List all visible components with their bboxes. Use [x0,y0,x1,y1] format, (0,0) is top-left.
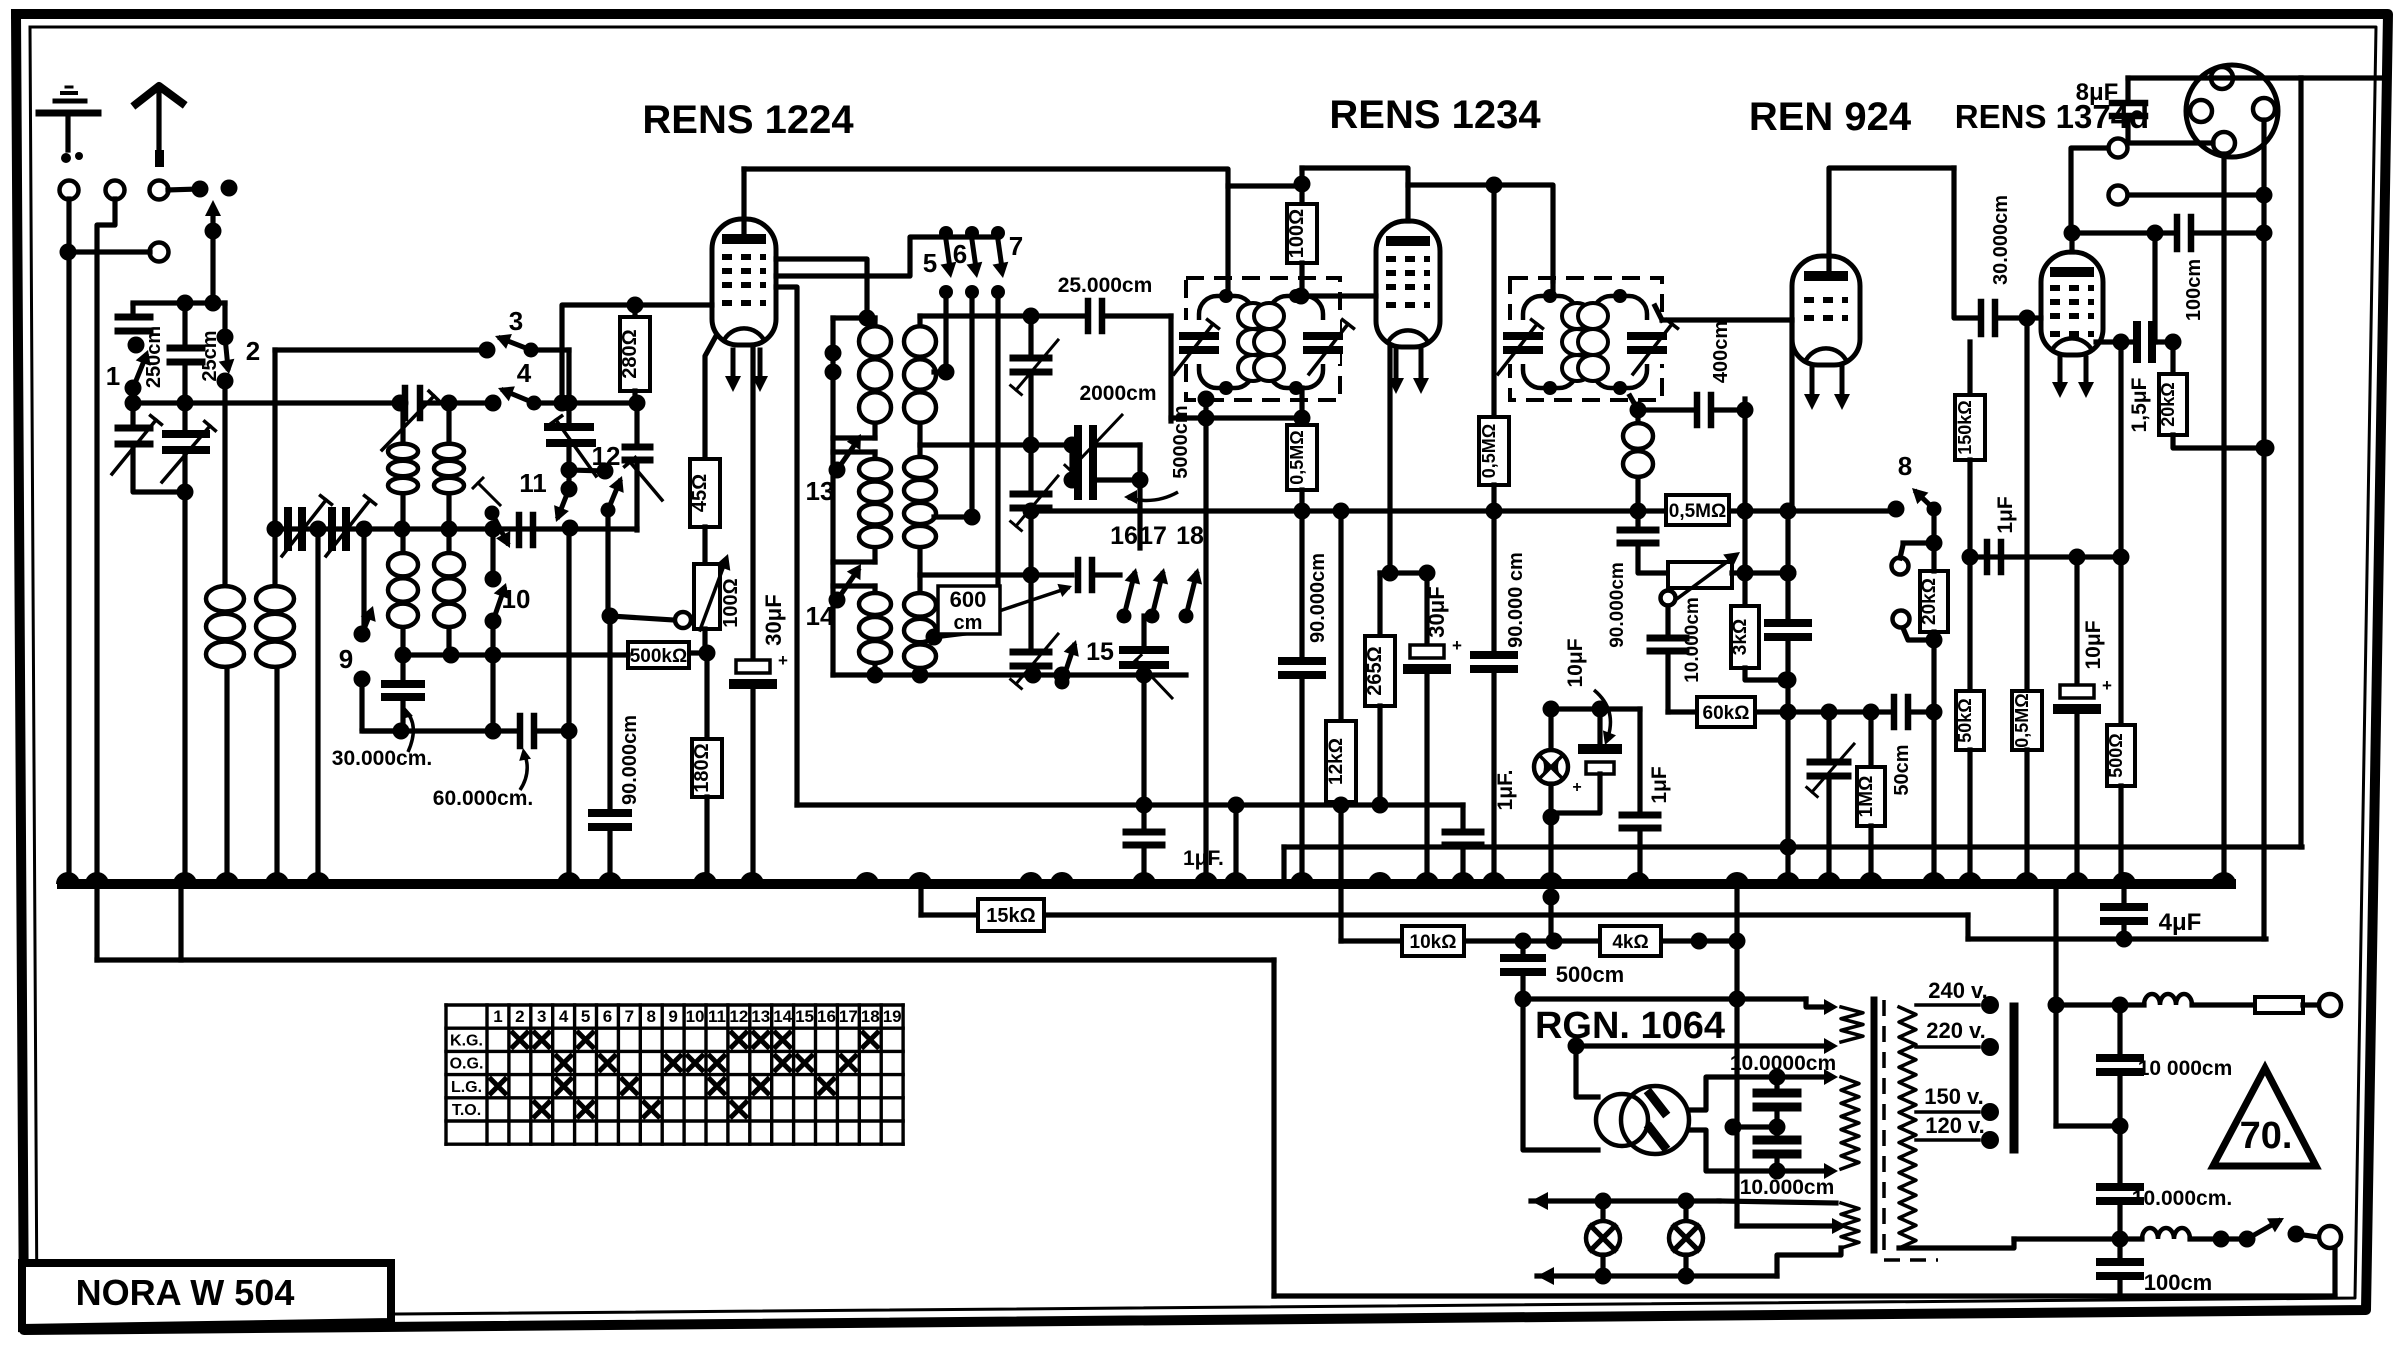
coil A1 [833,318,891,438]
trimmer cap var2 [162,403,215,884]
fuse [2255,997,2318,1013]
resistor 60k [1697,697,1755,727]
speaker plug [2186,65,2278,157]
wire x2264 [2256,120,2273,939]
capacitor 5000cm b [1064,445,1149,496]
label 8uF [2076,79,2119,106]
capacitor 250cm [118,305,165,388]
svg-text:K.G.: K.G. [450,1032,483,1049]
pilot lamp b [1669,1201,1703,1276]
svg-text:100Ω: 100Ω [1286,209,1308,258]
switch 17 [1139,522,1168,624]
resistor 150k [1955,342,1985,557]
svg-text:1μF: 1μF [1648,766,1671,804]
mains select bar [2010,1007,2019,1149]
svg-text:14: 14 [806,601,835,631]
wire cathode bias [705,336,716,459]
svg-text:0,5MΩ: 0,5MΩ [1287,430,1307,484]
switch 2 [217,303,261,390]
svg-text:4μF: 4μF [2159,909,2202,936]
wire y805 [1236,802,1463,807]
wire tube4 top [2064,225,2081,253]
wire tube1 top lead [741,169,746,240]
speaker coil b [2142,1228,2247,1248]
capacitor 10uF a [1551,709,1617,813]
osc coil U1b [434,403,464,529]
osc coil U2a [388,529,418,655]
svg-text:10.000cm: 10.000cm [1740,1176,1835,1199]
resistor 4k [1600,926,1661,956]
svg-text:7: 7 [1009,231,1023,261]
wire y557 row [1962,549,2130,566]
svg-text:1μF.: 1μF. [1494,770,1517,811]
trimmer T3 [1011,575,1058,689]
svg-text:8: 8 [647,1007,656,1026]
wire speaker fb [2118,342,2123,557]
capacitor 100cm [2177,217,2273,321]
resistor 50k [1955,557,1984,884]
jack circle 2 [1893,611,1935,641]
capacitor 10000cm d [2100,1126,2232,1239]
wire y960 [97,884,1274,960]
switch 11 [473,468,547,548]
rectifier RGN1064 V5 [1596,1086,1689,1154]
trimmer cap 12a [548,350,596,479]
resistor 0.5M b [1479,417,1509,520]
trimmer var5 [326,496,376,556]
triangle 70 [2213,1068,2316,1166]
antenna symbol [136,86,182,167]
svg-text:180Ω: 180Ω [691,743,713,792]
varcap 15 [1123,616,1172,698]
svg-text:30μF: 30μF [1424,586,1449,637]
svg-text:2000cm: 2000cm [1079,382,1156,405]
capacitor 10000cm a [1730,1052,1836,1136]
wire 15k riser [918,884,923,915]
wire y350 sw3 [275,347,487,352]
svg-text:12: 12 [592,441,621,471]
wire cap mid [1725,1119,1778,1136]
svg-text:240 v.: 240 v. [1928,978,1988,1003]
wire x1737 [1729,884,1746,1226]
wire tube2 top [1302,168,1408,221]
svg-text:RGN. 1064: RGN. 1064 [1535,1005,1725,1047]
svg-text:6: 6 [953,239,967,269]
coil A left side [825,318,842,675]
wire pot right [1732,565,1797,582]
transformer primary winding a [1841,1007,1863,1042]
capacitor 500cm b [1504,941,1624,1008]
wire top y305 [133,295,225,312]
svg-text:T.O.: T.O. [452,1102,481,1119]
svg-text:+: + [1452,636,1462,655]
switch 5 [923,226,957,299]
pilot lamp a [1586,1201,1620,1276]
svg-text:500kΩ: 500kΩ [630,646,688,667]
wire top bus y177 [744,169,1228,296]
wire pot to 180 [699,629,716,662]
wire sw3-sw4 link [531,347,569,352]
svg-text:20kΩ: 20kΩ [1919,578,1940,625]
wire y316 [920,308,1171,325]
label 10uF [1564,638,1616,745]
wire cath 1234 [1382,348,1399,582]
wire tube3 top [1829,168,1954,276]
coil A2 [833,452,891,562]
svg-text:+: + [778,651,788,670]
terminal out1 [2319,994,2341,1016]
svg-text:60kΩ: 60kΩ [1703,703,1750,724]
trimmer var4 [282,496,332,556]
wire tube2 anode y185 [1408,185,1553,281]
svg-text:16: 16 [1110,522,1138,550]
capacitor 1.5uF [2128,325,2182,432]
heater row 2 [1537,1248,1841,1285]
IF2 dashed box [1510,278,1662,400]
capacitor 1uF a [1126,675,1224,884]
wire lamp to bus [1548,817,1553,884]
svg-text:50cm: 50cm [1891,744,1913,795]
tube RENS1234 U2 [1376,221,1440,394]
svg-text:17: 17 [1139,522,1167,550]
wire x2056 [2053,884,2058,1005]
wire rect left [1523,999,1598,1150]
switch 1 [106,337,151,404]
wire 30000cm coupling [1954,168,1981,318]
capacitor 25000cm [1058,274,1153,331]
capacitor 10000cm det [1650,597,1703,712]
resistor 280ohm [619,305,650,403]
svg-text:2: 2 [515,1007,524,1026]
switch 14 [806,564,861,631]
earth symbol [39,87,98,163]
wire y655 [395,647,709,664]
capacitor 10000cm b [1740,1127,1835,1199]
IF1 tank 1 [1174,289,1268,395]
wire y530 row [275,521,637,538]
svg-text:10μF: 10μF [2082,620,2105,669]
wire x1140 [1137,445,1142,548]
svg-text:90.000cm: 90.000cm [1607,562,1628,648]
IF2 tank 2 [1578,289,1678,395]
wire y939 right [1968,936,2266,941]
svg-text:2: 2 [246,336,260,366]
wire secondary bottom [1899,1239,2014,1248]
label 60000cm [433,748,533,810]
antenna coil L2 [256,350,294,884]
coil A3 [833,586,891,675]
switch 4 [485,358,542,412]
svg-text:L.G.: L.G. [451,1079,482,1096]
wire sw161718 bottoms [1124,616,1186,638]
wire lamp feed [1543,884,1560,941]
coil B3 [904,575,936,675]
wire sw9 down [362,679,410,740]
resistor 100ohm IF [1286,168,1317,296]
wire series cap var3 [382,388,491,450]
wire x608 down [602,510,619,813]
svg-text:17: 17 [839,1007,858,1026]
wire y915 15k [921,915,1968,939]
label RENS 1224 [642,98,854,142]
svg-text:400cm: 400cm [1710,321,1732,383]
svg-text:500cm: 500cm [1556,962,1625,987]
svg-text:1: 1 [493,1007,502,1026]
arrow up node [205,200,222,240]
wire x1171 [1168,316,1173,421]
wire IF2 sec bottom [1630,396,1647,419]
switch 6 [953,226,983,299]
svg-text:14: 14 [773,1007,792,1026]
capacitor det2 [1768,511,1808,884]
svg-text:120 v.: 120 v. [1925,1113,1985,1138]
svg-text:70.: 70. [2240,1115,2293,1157]
switch 10 [485,529,531,740]
wire IF2 grid out [1647,306,1792,388]
transformer core dashed [1884,1000,1938,1260]
svg-text:18: 18 [1176,522,1204,550]
trimmer T2 [1011,445,1058,584]
tube RENS1374d U4 [2041,252,2103,398]
capacitor 600cm [920,560,1120,590]
resistor 1M [1856,712,1885,884]
resistor 0.5M a [1287,388,1317,520]
svg-text:13: 13 [806,476,835,506]
tube REN924 U3 [1792,256,1860,410]
tap 120V [1916,1113,1999,1149]
capacitor 1uF c [1445,770,1517,884]
capacitor 30000cm c [1981,195,2041,334]
svg-text:18: 18 [861,1007,880,1026]
wire x569 to bus [566,528,571,884]
transformer core bar [1871,1000,1878,1250]
tap 240V [1916,978,1999,1014]
terminal A3 [150,181,169,200]
wire y805 [797,797,1245,814]
wire rect right bottom [1689,1130,1786,1180]
capacitor 90000cm det [1607,511,1668,648]
wire IF2 top feed [1550,281,1555,296]
resistor 15k [978,899,1044,931]
contact 19 circle [610,612,691,628]
wire y709 [1543,701,1641,718]
svg-text:11: 11 [708,1007,726,1026]
antenna coil L1 [206,381,244,884]
terminal A2 [106,181,125,200]
resistor 12k [1326,503,1356,942]
potentiometer 100ohm [688,553,742,640]
terminal A1 [60,181,79,200]
wire rect right top [1689,1069,1786,1111]
wire gang x318 [315,529,320,884]
resistor 180ohm [691,653,722,884]
svg-text:11: 11 [519,468,547,498]
switch 12 [569,441,624,518]
capacitor 8uF [2112,78,2213,143]
switch 8 [1888,451,1942,518]
svg-text:cm: cm [954,612,983,634]
AVC wire y511 [1023,503,1897,520]
svg-text:100cm: 100cm [2144,1270,2213,1295]
wire IF1 tank1 down [1198,391,1215,885]
capacitor 50cm [1891,697,1943,796]
wire x1236 [1233,805,1238,884]
capacitor 60000cm [520,716,569,746]
svg-text:10μF: 10μF [1564,638,1587,687]
switch 13 [806,434,861,506]
potentiometer vol [1661,552,1741,606]
wire sw8 right [1926,509,1943,552]
svg-text:10.000cm.: 10.000cm. [2132,1187,2232,1210]
wire g2 feed [776,237,946,276]
terminal E [150,243,169,262]
svg-text:90.000cm: 90.000cm [1307,553,1329,643]
wire tube2 grid [1293,288,1377,305]
svg-text:280Ω: 280Ω [619,329,641,378]
capacitor 10000cm c [2100,997,2232,1127]
capacitor 10uF b [2058,557,2112,884]
svg-text:12: 12 [729,1007,748,1026]
svg-text:10: 10 [686,1007,705,1026]
resistor 3k [1730,573,1795,689]
title box NORA W504 [22,1263,391,1328]
wire E to A-line [60,244,151,261]
wire y573 [1380,565,1436,582]
wire x2301 [2301,78,2384,847]
capacitor 11c [519,515,533,545]
wire x1031 [1028,316,1033,358]
svg-text:4: 4 [517,358,532,388]
svg-text:7: 7 [625,1007,634,1026]
wire left V2 [97,199,115,884]
capacitor 90000cm b [1474,511,1527,884]
resistor 20k b [2158,342,2275,457]
svg-text:10 000cm: 10 000cm [2138,1057,2233,1080]
label 600cm [938,584,1072,634]
svg-text:12kΩ: 12kΩ [1326,738,1347,785]
coil A top feed [776,259,876,327]
wire y403 [125,395,399,412]
wire y1296 [1274,1247,2335,1296]
svg-text:100cm: 100cm [2183,259,2205,321]
svg-text:5: 5 [581,1007,590,1026]
capacitor 30uF U1 [734,348,788,884]
transformer heater winding [1841,1203,1859,1248]
resistor 45ohm [689,459,720,564]
wire y233 [2071,225,2177,242]
capacitor 90000cm a [1282,511,1329,884]
switch 9 [339,606,376,688]
resistor 0.5M avc [1666,495,1729,525]
wire g2 0.5M [1486,177,1503,418]
wire y847 long [1284,844,2302,849]
varcap 5000cm a [1065,415,1140,475]
transformer primary winding b [1777,1069,1859,1179]
wire plug top [2128,75,2301,80]
label REN 924 [1749,95,1912,139]
svg-text:45Ω: 45Ω [689,474,711,512]
wire y675 rail [833,667,1186,684]
lamp indicator [1534,709,1568,826]
heater row 1 [1531,1192,1836,1210]
switch 15 [1055,638,1114,690]
svg-text:0,5MΩ: 0,5MΩ [1669,501,1726,522]
wire sw5 down [934,292,955,381]
svg-text:4: 4 [559,1007,569,1026]
label RENS 1234 [1329,93,1541,137]
wire left V1 [66,199,71,884]
resistor 500k [628,642,689,668]
wire a3-dots [168,180,238,198]
svg-text:100Ω: 100Ω [720,578,742,627]
coil B1 [904,316,936,445]
wire y445 [920,437,1081,454]
switch 3 [479,306,539,359]
label RGN 1064 [1535,1005,1725,1047]
wire anode y257 [765,256,767,258]
svg-text:25.000cm: 25.000cm [1058,274,1153,297]
svg-text:600: 600 [950,587,987,612]
trimmer det [1807,712,1854,884]
wire y712 60k [1668,704,1894,721]
wire rgn loop [1568,1038,1839,1098]
IF1 dashed box [1186,278,1340,400]
mains switch [2239,1218,2319,1248]
tap 220V [1916,1018,1999,1056]
svg-text:150 v.: 150 v. [1924,1084,1984,1109]
ground bus [62,879,2231,889]
wire x1284 [1281,847,1286,884]
svg-text:16: 16 [817,1007,836,1026]
svg-text:0,5MΩ: 0,5MΩ [2012,693,2032,747]
wire y403 [491,395,646,412]
capacitor 1uF d [1622,709,1671,884]
wire x2027 0.5M [2024,318,2029,691]
coil B2 [904,445,936,575]
wire 100ohm link [1228,183,1302,188]
capacitor 12c [625,403,662,530]
wire sw9 feed [361,529,366,628]
capacitor 400cm [1638,321,1754,573]
terminal P1 [2071,139,2128,234]
trimmer T1 [1011,340,1058,454]
svg-text:6: 6 [603,1007,612,1026]
resistor 265ohm [1364,573,1395,814]
svg-text:+: + [1572,779,1581,796]
svg-text:5: 5 [923,248,937,278]
osc coil U1a [388,403,418,529]
terminal P2 [2109,186,2273,205]
wire g3 down [776,287,797,805]
svg-text:90.000 cm: 90.000 cm [1505,552,1527,648]
svg-text:19: 19 [883,1007,902,1026]
svg-text:220 v.: 220 v. [1926,1018,1986,1043]
wire y418 [1171,410,1311,427]
wire sw6 down [934,292,981,526]
label 2000cm [1079,382,1156,405]
svg-text:1MΩ: 1MΩ [1856,776,1877,818]
wire y941 10k [1341,933,1746,950]
svg-text:1,5μF: 1,5μF [2128,377,2151,432]
wire y1239 [2014,1231,2142,1248]
svg-text:13: 13 [751,1007,770,1026]
svg-text:60.000cm.: 60.000cm. [433,787,533,810]
resistor 20k a [1919,543,1948,649]
trimmer cap var1 [112,403,185,492]
wire x2155 g2 [2152,233,2157,342]
speaker coil a [2056,994,2255,1005]
wire 280 riser [562,297,712,404]
